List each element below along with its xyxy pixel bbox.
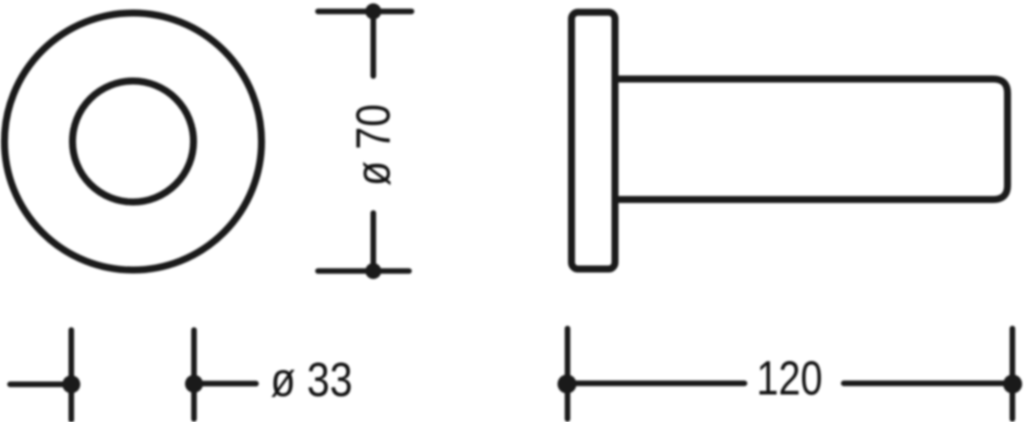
side view flange plate (572, 12, 616, 269)
front view inner circle (rod, dia 33) (73, 81, 194, 202)
dim 120 right extension line (1010, 329, 1016, 420)
dim dia70 bottom dot (365, 263, 381, 279)
dim 120 left dot (558, 375, 577, 394)
svg-text:ø 70: ø 70 (348, 104, 401, 186)
side view rod (length 120) (615, 79, 1008, 200)
dim dia33 right dot (185, 375, 203, 393)
dim 120 left extension line (565, 329, 571, 420)
svg-text:ø 33: ø 33 (271, 354, 353, 407)
dim 120 line right part (844, 380, 1013, 386)
dim 120 line left part (568, 380, 745, 386)
dim 120 right dot (1003, 375, 1022, 394)
dim dia33 left dot (62, 375, 80, 393)
dim dia33 left tail (10, 381, 71, 387)
dim dia70 top crossbar (318, 9, 412, 15)
dim dia70 bottom extension line (370, 213, 376, 271)
dim dia70 top dot (365, 3, 381, 19)
svg-text:120: 120 (757, 353, 823, 406)
dim dia70 top extension line (370, 11, 376, 76)
dim dia33 left extension line (69, 330, 75, 420)
dim dia33 right tail (194, 381, 256, 387)
dim dia33 right extension line (191, 330, 197, 419)
dim dia70 bottom crossbar (318, 268, 409, 274)
front view outer circle (flange, dia 70) (5, 13, 262, 270)
